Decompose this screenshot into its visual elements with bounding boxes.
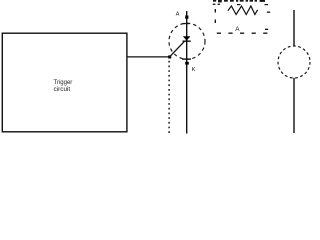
thyristor gate diagonal lead xyxy=(170,42,185,57)
snubber dashed box right border dash 1 xyxy=(267,12,270,13)
resistor R1 zigzag xyxy=(228,6,258,15)
svg-text:A: A xyxy=(235,26,240,33)
wire gate lead from trigger circuit xyxy=(127,56,170,58)
snubber dashed box right border dash 2 xyxy=(265,29,268,30)
wire dotted return line xyxy=(168,61,170,136)
envelope top dash tick xyxy=(183,23,189,24)
label K cathode xyxy=(192,67,196,73)
label 'Trigger circuit' xyxy=(54,80,73,93)
cropped caption text row xyxy=(213,0,265,2)
label A anode xyxy=(176,11,180,17)
svg-text:circuit: circuit xyxy=(54,86,71,93)
thyristor Q1 triangle xyxy=(183,36,191,40)
svg-text:K: K xyxy=(192,67,196,73)
snubber dashed box bottom border xyxy=(217,32,268,34)
snubber dashed box top border xyxy=(213,4,268,6)
wire anode-cathode main line xyxy=(186,11,188,134)
source V1 dashed circle xyxy=(278,46,310,78)
node A dot xyxy=(185,16,188,19)
trigger circuit block U1 xyxy=(2,33,127,132)
thyristor cathode bar xyxy=(183,41,191,42)
svg-text:A: A xyxy=(176,11,180,17)
label A under resistor xyxy=(235,26,240,33)
envelope bottom dash tick xyxy=(182,58,191,59)
wire source branch lower xyxy=(293,78,295,133)
thyristor envelope dashed circle xyxy=(169,23,205,59)
snubber dashed box left border xyxy=(214,9,216,23)
wire source branch upper xyxy=(293,10,295,46)
node G junction dot xyxy=(168,55,171,58)
node K dot xyxy=(185,62,189,65)
